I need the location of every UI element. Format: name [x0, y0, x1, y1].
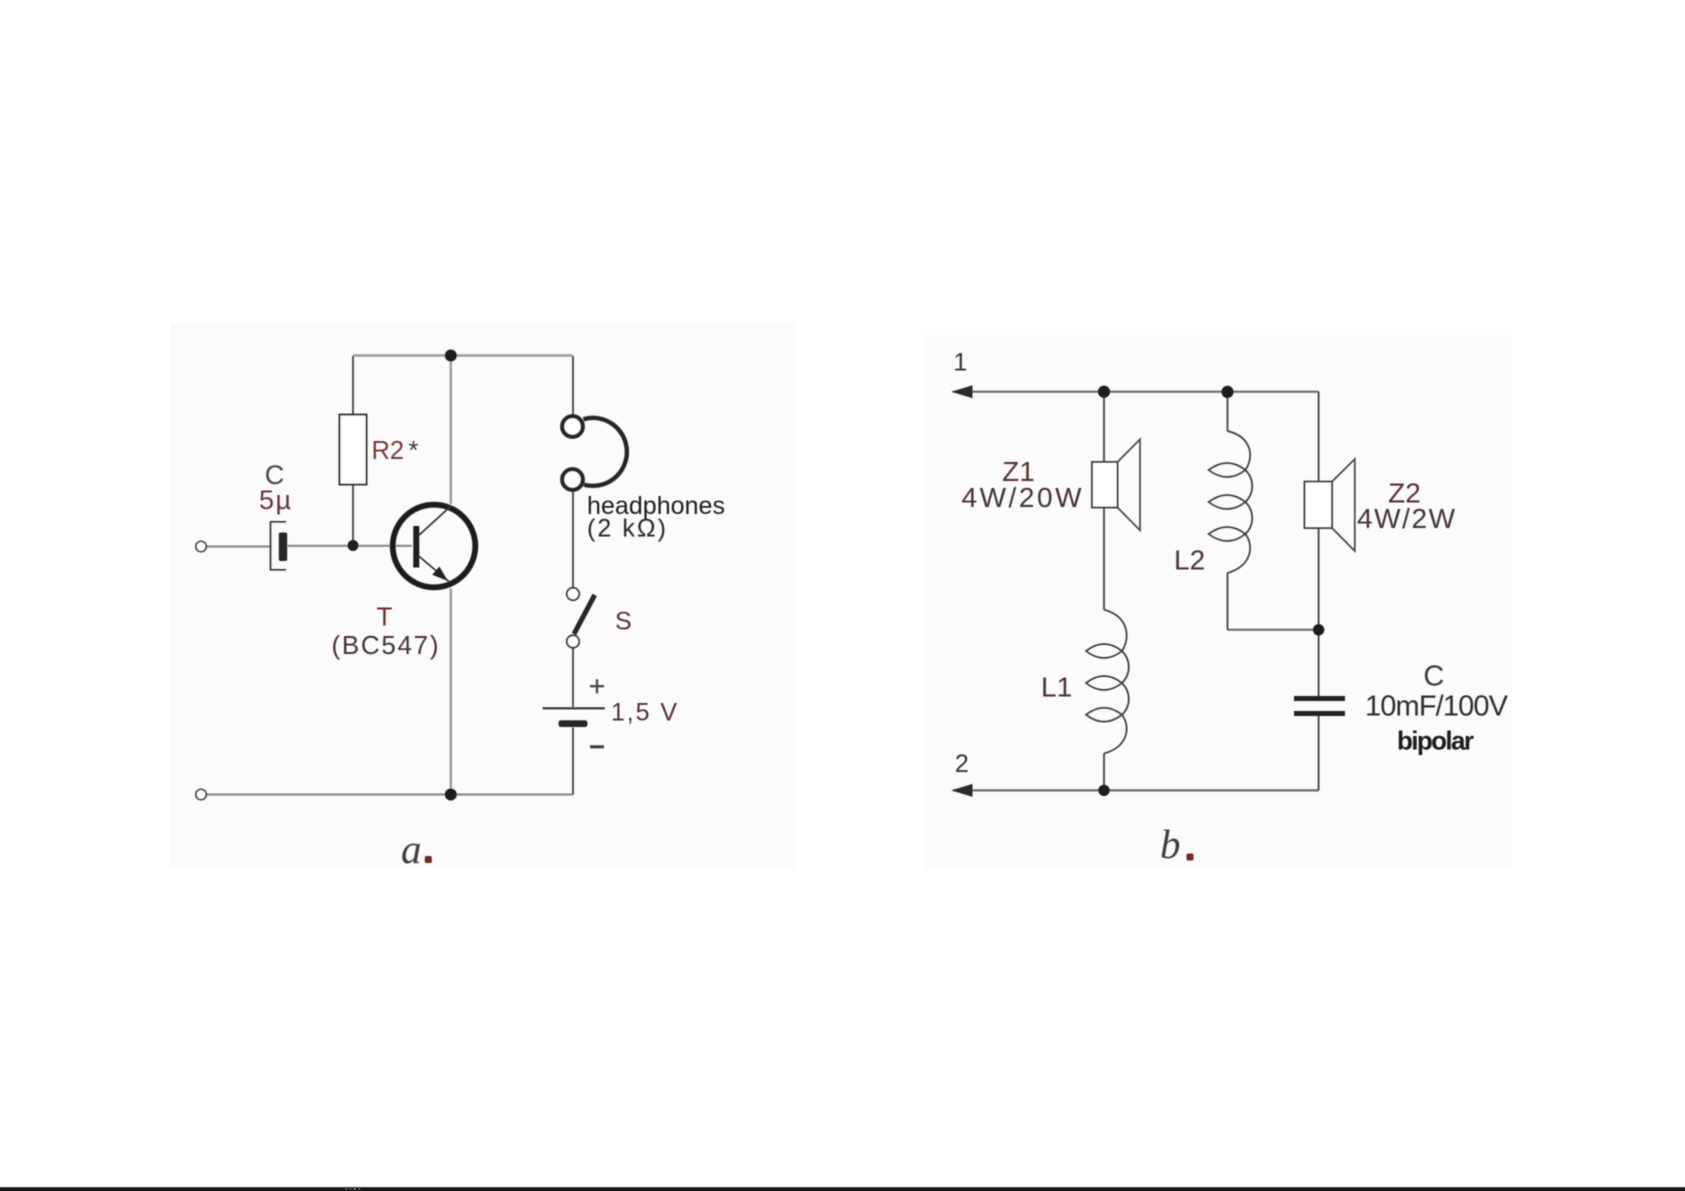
- svg-text:*: *: [409, 437, 419, 465]
- svg-text:10mF/100V: 10mF/100V: [1365, 691, 1509, 723]
- svg-text:1,5 V: 1,5 V: [611, 699, 677, 727]
- svg-text:4W/2W: 4W/2W: [1357, 503, 1456, 534]
- svg-text:R2: R2: [372, 437, 405, 465]
- svg-text:bipolar: bipolar: [1397, 726, 1474, 756]
- svg-text:4W/20W: 4W/20W: [962, 482, 1083, 513]
- svg-text:L2: L2: [1174, 545, 1205, 576]
- svg-text:b: b: [1160, 821, 1181, 867]
- svg-text:2: 2: [955, 750, 969, 778]
- svg-text:(BC547): (BC547): [332, 630, 439, 660]
- svg-text:T: T: [377, 602, 393, 632]
- svg-text:1: 1: [953, 349, 967, 377]
- svg-text:C: C: [1423, 661, 1444, 693]
- svg-text:a: a: [401, 826, 422, 872]
- svg-text:5µ: 5µ: [259, 485, 291, 515]
- svg-text:(2 kΩ): (2 kΩ): [587, 515, 666, 543]
- svg-text:L1: L1: [1041, 672, 1072, 703]
- svg-text:S: S: [615, 608, 632, 636]
